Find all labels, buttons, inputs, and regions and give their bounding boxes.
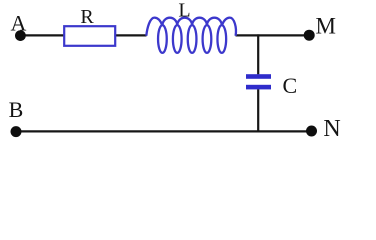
svg-text:C: C bbox=[282, 73, 297, 98]
resistor R1 body bbox=[64, 26, 115, 46]
svg-text:N: N bbox=[323, 116, 340, 142]
node M terminal dot bbox=[304, 30, 315, 41]
wire A to resistor and resistor to coil (top rail left part) bbox=[20, 34, 147, 36]
node A label "A" bbox=[10, 10, 26, 35]
node M label "M" bbox=[315, 13, 335, 38]
svg-text:R: R bbox=[80, 6, 94, 28]
inductor L1 label "L" bbox=[178, 0, 190, 22]
wire bottom of capacitor (vertical from plate to bottom rail) bbox=[257, 89, 259, 131]
capacitor C1 label "C" bbox=[282, 73, 297, 98]
svg-text:B: B bbox=[9, 97, 24, 122]
svg-text:M: M bbox=[315, 13, 335, 38]
node A terminal dot bbox=[15, 30, 26, 41]
svg-text:L: L bbox=[178, 0, 190, 22]
resistor R1 label "R" bbox=[80, 6, 94, 28]
wire coil to node M (top rail right part) bbox=[236, 34, 310, 36]
inductor L1 coil bbox=[146, 18, 236, 53]
node B terminal dot bbox=[11, 126, 22, 137]
capacitor C1 top plate bbox=[246, 74, 271, 79]
capacitor C1 bottom plate bbox=[246, 85, 271, 90]
node B label "B" bbox=[9, 97, 24, 122]
wire top of capacitor (vertical from top rail to plate) bbox=[257, 34, 259, 74]
node N label "N" bbox=[323, 116, 340, 142]
svg-text:A: A bbox=[10, 10, 26, 35]
node N terminal dot bbox=[306, 126, 317, 137]
wire B to N (bottom rail) bbox=[16, 130, 312, 132]
